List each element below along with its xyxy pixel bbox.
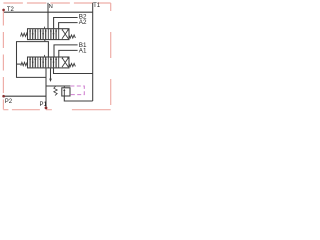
tank gallery wire <box>54 68 93 73</box>
port N line (wire) <box>47 3 49 29</box>
valve V2 right spring <box>69 35 75 38</box>
relief outlet wire <box>64 96 92 101</box>
pump line P2 (horizontal wire) <box>4 95 46 97</box>
work line A2 (wire) <box>59 23 78 29</box>
pump line P1 (vertical wire) <box>45 68 47 107</box>
relief valve RV1 arrow <box>63 86 65 96</box>
junction dot P2 <box>2 95 5 98</box>
bypass spring connector wire <box>17 63 21 65</box>
work line B1 (wire) <box>54 45 78 57</box>
valve V2 spool arrows <box>29 29 69 39</box>
relief valve RV1 spring <box>54 86 57 95</box>
boundary border left (dashed) <box>2 3 4 110</box>
boundary border top (dashed) <box>3 2 110 4</box>
tank line T2 (horizontal wire) <box>4 11 93 13</box>
valve V1 left spring <box>21 62 28 65</box>
svg-text:A2: A2 <box>79 19 87 26</box>
carryover wire V2 to V1 <box>45 40 49 57</box>
svg-text:P1: P1 <box>40 102 48 108</box>
valve V1 right spring <box>69 63 75 66</box>
pilot line (dashed) <box>70 86 84 95</box>
arrow stub above valve V2 <box>44 27 46 29</box>
svg-text:P2: P2 <box>5 99 13 105</box>
junction dot P1 <box>45 107 48 110</box>
svg-text:A1: A1 <box>79 47 87 54</box>
boundary border right (dashed) <box>110 3 112 110</box>
tank return line T1 (vertical wire) <box>92 3 94 101</box>
work line B2 (wire) <box>54 18 78 29</box>
flow arrow to relief gallery <box>50 68 52 79</box>
boundary border bottom (dashed) <box>3 109 110 111</box>
svg-text:T2: T2 <box>7 7 15 13</box>
junction dot T2 <box>2 9 5 12</box>
valve V1 spool arrows <box>29 58 69 68</box>
valve V2 left spring <box>21 33 28 36</box>
relief feed wire <box>46 85 70 87</box>
svg-text:N: N <box>49 4 53 10</box>
arrow stub above valve V1 <box>44 55 46 57</box>
bypass wire (left side) <box>17 42 47 78</box>
relief valve RV1 body <box>62 88 70 96</box>
valve V1 body <box>28 57 70 68</box>
work line A1 (wire) <box>59 50 78 57</box>
svg-text:T1: T1 <box>93 3 101 9</box>
valve V2 body <box>28 29 70 40</box>
